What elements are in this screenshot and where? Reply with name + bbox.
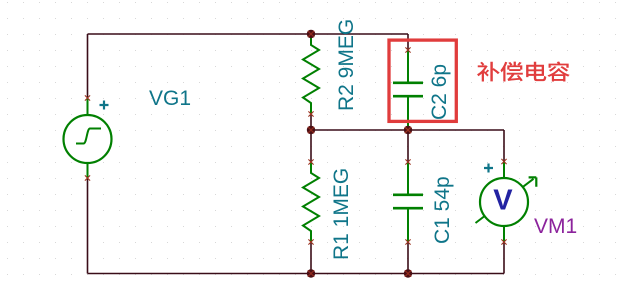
- wire VG1 bottom: [87, 178, 89, 274]
- pin R1 top: [308, 159, 313, 164]
- svg-text:VM1: VM1: [534, 215, 577, 238]
- svg-text:V: V: [493, 185, 513, 217]
- capacitor C2: [393, 50, 423, 130]
- svg-text:R1 1MEG: R1 1MEG: [330, 168, 353, 260]
- junction node OUT at R2/R1: [307, 126, 315, 134]
- wire top rail (VG1+ to C2 top): [88, 33, 409, 35]
- VG1 plus polarity mark: [100, 101, 109, 110]
- label VG1: [149, 87, 191, 110]
- wire C1 bottom to bottom rail: [407, 242, 409, 274]
- wire mid rail to C1 top: [407, 130, 409, 162]
- junction ground rail at R1: [307, 269, 315, 277]
- junction node OUT at C2/C1: [404, 126, 412, 134]
- label VM1: [534, 215, 577, 238]
- wire mid rail (node OUT): [311, 129, 504, 131]
- pin R2 bottom: [308, 111, 313, 116]
- pin C1 bottom: [405, 239, 410, 244]
- pin VG1 -: [85, 175, 90, 180]
- svg-text:R2 9MEG: R2 9MEG: [335, 19, 358, 111]
- wire R2 bottom to mid rail: [310, 114, 312, 130]
- voltmeter VM1: [476, 162, 537, 243]
- capacitor C1: [393, 162, 423, 242]
- label C1 54p: [431, 176, 454, 244]
- wire mid rail to R1 top: [310, 130, 312, 162]
- svg-text:C1 54p: C1 54p: [431, 176, 454, 244]
- voltage generator VG1: [64, 98, 112, 178]
- junction node top (R2/VG1/C2 rail): [307, 30, 315, 38]
- annotation text 补偿电容 (compensation capacitor): [477, 62, 570, 82]
- wire R1 bottom to bottom rail: [310, 242, 312, 274]
- wire VG1 top: [87, 34, 89, 98]
- pin VG1 +: [85, 95, 90, 100]
- wire VM1 bottom to bottom rail: [503, 242, 505, 274]
- svg-text:C2 6p: C2 6p: [428, 64, 451, 120]
- wire C2 top drop: [407, 34, 409, 50]
- pin C2 top: [405, 47, 410, 52]
- resistor R1: [303, 162, 319, 242]
- pin C2 bottom: [405, 127, 410, 132]
- svg-text:VG1: VG1: [149, 87, 191, 110]
- label R2 9MEG: [335, 19, 358, 111]
- label C2 6p: [428, 64, 451, 120]
- resistor R2: [303, 34, 319, 114]
- VM1 plus polarity mark: [484, 164, 493, 173]
- pin VM1 -: [501, 239, 506, 244]
- wire bottom rail (ground return): [88, 273, 505, 275]
- label R1 1MEG: [330, 168, 353, 260]
- highlight box around C2 (compensation capacitor): [389, 40, 456, 121]
- pin R1 bottom: [308, 239, 313, 244]
- junction ground rail at C1: [404, 269, 412, 277]
- wire mid rail to VM1 top: [503, 130, 505, 162]
- pin VM1 +: [501, 159, 506, 164]
- pin C1 top: [405, 159, 410, 164]
